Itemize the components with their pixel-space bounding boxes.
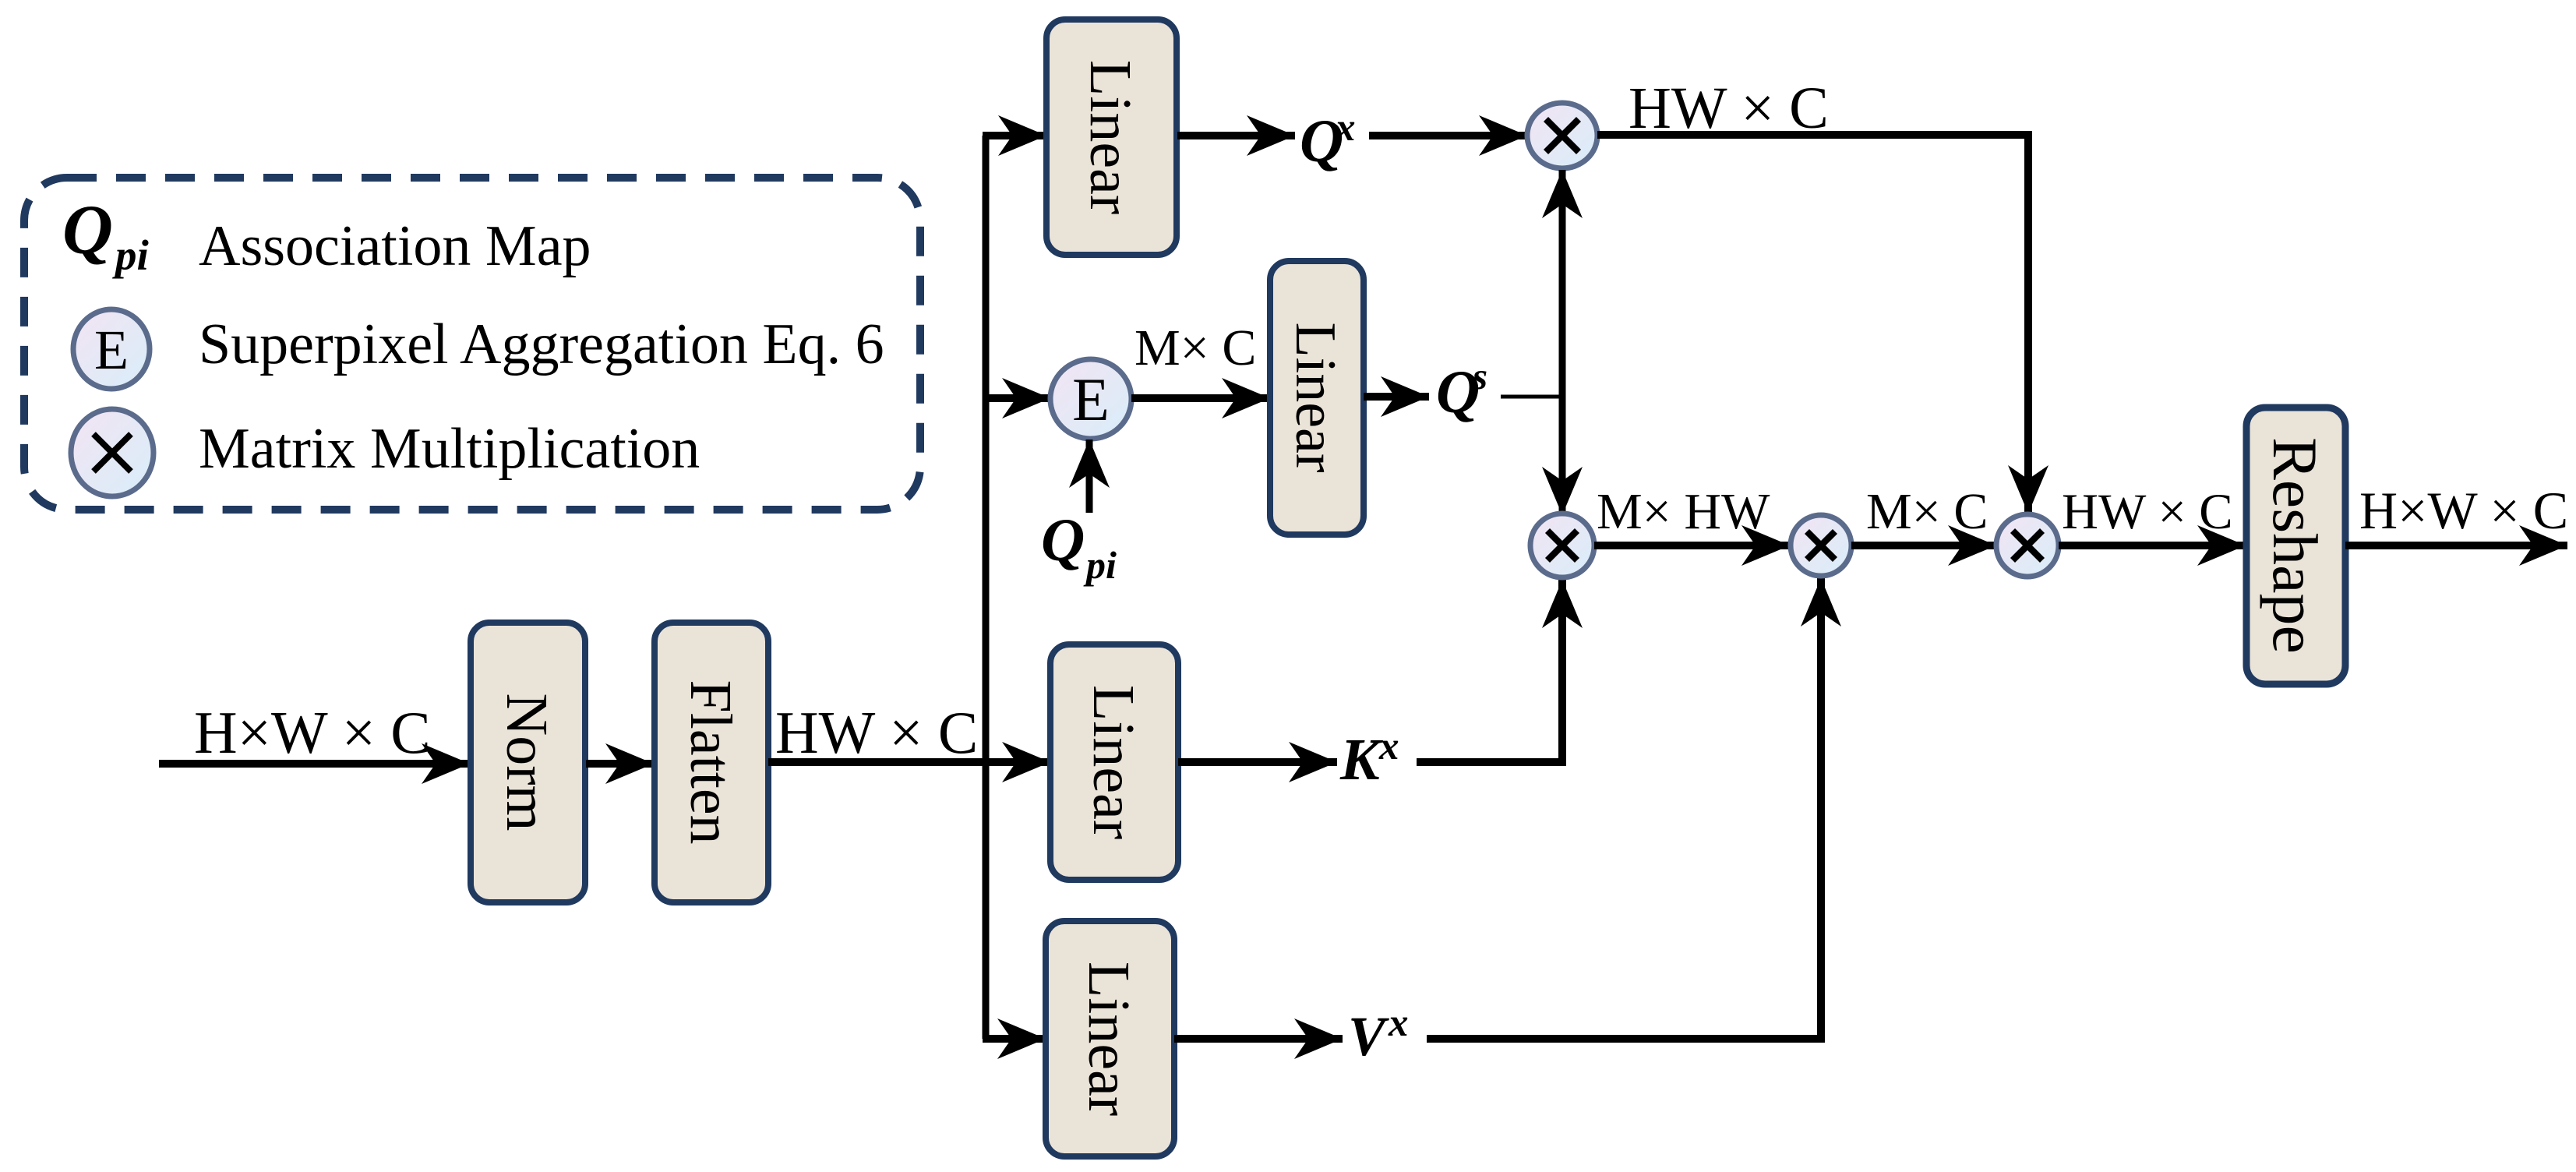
svg-text:Q: Q (1041, 506, 1085, 574)
wire Linear Q to Qx (1177, 132, 1295, 139)
svg-text:H×W × C: H×W × C (194, 699, 431, 766)
node E superpixel aggregation (1050, 359, 1131, 439)
svg-text:pi: pi (112, 231, 150, 279)
legend symbol E (73, 309, 150, 389)
wire trunk to Linear V (983, 1035, 1046, 1043)
multiply node MC (1791, 515, 1851, 576)
label Vx (1348, 1001, 1409, 1068)
label Kx (1339, 725, 1399, 793)
wire trunk to node E (983, 394, 1050, 402)
block Linear Q (1046, 19, 1177, 255)
wire Qx to multiply top (1369, 132, 1527, 139)
svg-text:Norm: Norm (494, 693, 559, 831)
legend box (24, 178, 920, 510)
block Norm (471, 623, 585, 902)
block Reshape (2246, 408, 2345, 684)
svg-text:Linear: Linear (1283, 322, 1347, 472)
svg-text:x: x (1335, 106, 1356, 150)
wire input arrow (159, 760, 470, 768)
wire Qs to vertical (1501, 395, 1562, 399)
legend symbol Qpi (62, 192, 150, 279)
block Linear V (1046, 921, 1174, 1156)
block Flatten (655, 623, 768, 902)
svg-text:HW × C: HW × C (2062, 484, 2233, 540)
wire Linear S to Qs (1364, 393, 1429, 401)
wire E to Linear S (1131, 394, 1270, 402)
label Qs (1436, 355, 1487, 425)
wire multiply HWC to Reshape (2059, 542, 2246, 549)
multiply node top (1527, 103, 1597, 168)
svg-text:Association Map: Association Map (199, 214, 591, 278)
block Linear S (1270, 261, 1364, 535)
wire trunk vertical (983, 136, 990, 1039)
multiply node MHW (1530, 514, 1594, 577)
wire multiply MC to multiply HWC (1851, 542, 1996, 549)
wire multiply top to multiply HWC (1597, 135, 2028, 514)
svg-text:V: V (1348, 1005, 1389, 1068)
label Qx (1300, 106, 1356, 175)
wire multiply MHW to multiply MC (1594, 542, 1790, 549)
svg-text:pi: pi (1083, 543, 1117, 587)
svg-text:Linear: Linear (1076, 962, 1142, 1116)
svg-text:E: E (94, 319, 129, 381)
wire Linear K to Kx (1178, 758, 1337, 766)
wire Qpi to E (1086, 439, 1093, 513)
svg-text:M× C: M× C (1134, 319, 1256, 376)
svg-text:E: E (1072, 365, 1110, 433)
svg-text:Q: Q (62, 192, 113, 269)
svg-text:s: s (1472, 355, 1487, 397)
wire output arrow (2345, 542, 2567, 549)
wire Vx to multiply MC (1427, 578, 1821, 1039)
svg-text:Reshape: Reshape (2260, 437, 2331, 654)
svg-text:H×W × C: H×W × C (2359, 481, 2568, 540)
wire vertical down to multiply MHW (1559, 397, 1566, 515)
multiply node HWC (1996, 514, 2059, 577)
svg-text:M× HW: M× HW (1597, 483, 1770, 540)
svg-text:M× C: M× C (1866, 483, 1988, 540)
svg-text:Linear: Linear (1081, 685, 1146, 839)
svg-text:x: x (1388, 1001, 1409, 1045)
wire Flatten to Linear K (768, 758, 1050, 766)
svg-text:Superpixel Aggregation Eq. 6: Superpixel Aggregation Eq. 6 (199, 312, 884, 376)
wire trunk to Linear Q (983, 132, 1046, 139)
legend symbol matrix multiplication (71, 409, 154, 496)
svg-text:HW × C: HW × C (1629, 76, 1829, 141)
wire Kx to multiply MHW (1417, 580, 1562, 762)
svg-text:HW × C: HW × C (775, 699, 978, 766)
wire vertical up to multiply top (1559, 170, 1566, 397)
wire Linear V to Vx (1174, 1035, 1343, 1043)
label Qpi (1041, 506, 1117, 587)
wire Norm to Flatten (586, 760, 654, 768)
svg-text:Flatten: Flatten (678, 680, 743, 844)
svg-text:x: x (1378, 725, 1399, 768)
svg-text:Matrix Multiplication: Matrix Multiplication (199, 417, 700, 481)
svg-text:K: K (1339, 727, 1383, 793)
block Linear K (1050, 644, 1178, 880)
svg-text:Linear: Linear (1078, 60, 1143, 214)
